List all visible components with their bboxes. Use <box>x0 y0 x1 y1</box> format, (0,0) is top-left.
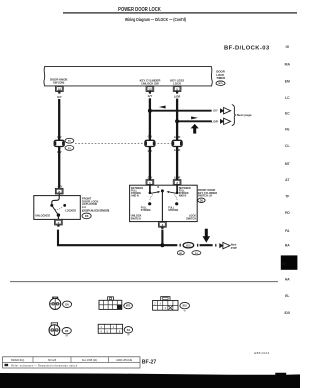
svg-text:AND N: AND N <box>131 195 139 198</box>
svg-text:UNLOCKED: UNLOCKED <box>35 213 50 217</box>
wire L/OR right vertical lower <box>176 147 178 180</box>
svg-text:UNLOCK SW: UNLOCK SW <box>141 82 159 86</box>
connector code oval D1 below bus <box>192 251 201 255</box>
door lock timer unit box (torn wavy edges) <box>44 67 212 86</box>
svg-text:EL: EL <box>285 294 289 298</box>
wire G/Y horizontal to next page <box>150 110 212 112</box>
bottom scan black band <box>0 373 300 388</box>
svg-text:PD: PD <box>285 211 290 215</box>
svg-text:IDX: IDX <box>284 311 290 315</box>
junction on L/OR wire <box>175 119 179 123</box>
svg-text:L/OR: L/OR <box>174 175 180 179</box>
bus junction dot <box>160 243 164 247</box>
svg-text:STROKE: STROKE <box>168 209 178 212</box>
connector face D5 round <box>49 323 60 336</box>
bus right segment <box>200 244 213 246</box>
svg-text:FA: FA <box>285 229 290 233</box>
svg-text:G996-UP10UE: G996-UP10UE <box>116 359 132 362</box>
svg-text:W: W <box>184 311 187 313</box>
svg-text:D6: D6 <box>65 302 69 306</box>
svg-text:LOCKED: LOCKED <box>65 209 76 213</box>
right throw dashed arc <box>174 195 177 201</box>
arrow marker left on G/Y wire <box>159 106 166 109</box>
front door lock actuator LH box <box>34 196 81 220</box>
svg-text:MA: MA <box>285 63 291 67</box>
svg-text:CL: CL <box>285 144 290 148</box>
svg-text:L/OR: L/OR <box>174 94 180 98</box>
svg-text:BF: BF <box>282 262 287 266</box>
connector code oval D1 <box>65 146 74 151</box>
junction on G/Y wire <box>148 109 152 113</box>
svg-text:AND N: AND N <box>179 195 187 198</box>
svg-text:G/Y: G/Y <box>58 184 63 188</box>
left throw dashed arc <box>150 195 153 201</box>
front door key cylinder switch LH box <box>130 185 198 221</box>
svg-text:AT: AT <box>285 178 290 182</box>
wire G/Y left vertical lower <box>58 147 60 189</box>
connector code oval B1 face <box>124 327 132 333</box>
svg-text:LC: LC <box>285 96 290 100</box>
actuator throw dashed arc <box>53 207 63 210</box>
svg-text:MT: MT <box>285 162 291 166</box>
footer revision table <box>3 357 141 368</box>
svg-text:HA: HA <box>285 278 290 282</box>
actuator switch lever <box>52 205 59 215</box>
svg-text:POWER DOOR LOCK: POWER DOOR LOCK <box>118 6 161 13</box>
arrow marker right on L/OR wire <box>191 116 198 119</box>
connector code oval B1 below bus <box>177 251 184 255</box>
svg-text:G/Y: G/Y <box>148 94 153 98</box>
svg-text:N: N <box>157 186 159 189</box>
svg-text:G/Y: G/Y <box>148 135 153 139</box>
connector code M75 oval <box>216 81 225 85</box>
svg-text:SWITCH LH: SWITCH LH <box>198 194 213 198</box>
connector code oval B1 <box>65 138 74 143</box>
page arrow symbol bottom <box>219 242 230 248</box>
connector code oval D5 face <box>62 328 71 334</box>
actuator internal wire down <box>57 215 59 219</box>
svg-text:SWITCH: SWITCH <box>186 217 196 220</box>
pin 13 of timer <box>146 86 154 94</box>
svg-text:GBF1044: GBF1044 <box>254 351 269 355</box>
wire G/Y middle vertical upper <box>149 98 151 140</box>
svg-text:TF: TF <box>285 195 289 199</box>
svg-text:BF-D/LOCK-03: BF-D/LOCK-03 <box>224 45 270 51</box>
key switch left wire stub <box>149 185 151 192</box>
connector code oval D6 face <box>63 301 72 307</box>
left lever with arrowhead <box>150 192 157 193</box>
svg-text:M75: M75 <box>126 306 131 308</box>
actuator pin 8 <box>55 188 63 194</box>
page arrow symbol second <box>220 118 231 124</box>
wire L/OR horizontal to next page <box>177 120 212 122</box>
down arrow page marker <box>203 229 211 243</box>
svg-text:STROKE: STROKE <box>141 209 151 212</box>
curly brace to next page <box>232 105 236 126</box>
actuator pin 7 <box>55 219 63 226</box>
inline connector on G/Y middle wire <box>145 140 155 146</box>
connector face B1 rectangular <box>98 324 122 333</box>
svg-text:13: 13 <box>148 87 152 91</box>
svg-text:L/OR: L/OR <box>211 120 217 124</box>
pin 18 of timer <box>56 86 64 94</box>
bus end tick <box>215 244 216 247</box>
svg-text:SWITCH: SWITCH <box>131 217 141 220</box>
svg-text:B15: B15 <box>183 306 188 308</box>
svg-text:: Refer indicators — Reworded: : Refer indicators — Reworded informatio… <box>9 364 78 367</box>
svg-text:BMA06-91Q: BMA06-91Q <box>11 359 24 362</box>
svg-text:G/Y: G/Y <box>57 95 62 99</box>
svg-text:LOCK: LOCK <box>173 82 181 86</box>
key cylinder switch pin 3 <box>173 180 181 186</box>
key cylinder switch pin 4 <box>159 222 167 229</box>
wire G/Y middle vertical lower <box>149 147 151 180</box>
wire L/OR right vertical upper <box>176 99 178 141</box>
svg-text:D6: D6 <box>85 214 89 218</box>
header rule <box>63 12 297 13</box>
section tab BF highlighted box <box>281 255 298 269</box>
connector code D5 oval <box>198 198 205 202</box>
actuator locked contact <box>63 204 66 207</box>
inline connector on G/Y left wire <box>54 140 64 146</box>
svg-text:TIMER: TIMER <box>216 76 226 80</box>
svg-text:G/Y: G/Y <box>57 135 62 139</box>
harness dashed link line <box>75 142 171 144</box>
pin 5 of timer <box>173 86 181 94</box>
inline connector nub right <box>197 244 198 247</box>
key switch center wire <box>161 191 163 222</box>
key cylinder switch pin 1 <box>146 180 154 186</box>
svg-text:RA: RA <box>285 244 290 248</box>
key switch right wire stub <box>176 185 178 192</box>
page arrow symbol top <box>220 108 231 114</box>
up arrow page marker <box>191 124 199 134</box>
svg-text:S6 G28: S6 G28 <box>48 359 57 362</box>
svg-text:L/OR: L/OR <box>174 135 180 139</box>
connector code oval B15 face <box>180 302 190 308</box>
wire G/Y left vertical upper <box>58 99 60 140</box>
connector code oval M75 face <box>124 303 133 309</box>
inline connector B15 on bus <box>183 243 194 248</box>
svg-text:B15: B15 <box>186 245 191 247</box>
right lever with arrowhead <box>170 192 177 193</box>
svg-text:Dec 1995 (04): Dec 1995 (04) <box>82 359 97 362</box>
connector face D6 round <box>50 297 61 310</box>
separator line <box>10 281 278 283</box>
svg-text:G/Y: G/Y <box>213 109 218 113</box>
connector code D6 oval <box>82 213 91 219</box>
svg-text:(DOOR UNLOCK SENSOR): (DOOR UNLOCK SENSOR) <box>82 208 109 212</box>
svg-text:BF-27: BF-27 <box>142 359 157 365</box>
svg-text:EC: EC <box>285 112 290 116</box>
svg-text:Wiring Diagram — D/LOCK — (Con: Wiring Diagram — D/LOCK — (Cont'd) <box>125 16 187 22</box>
inline connector nub left <box>180 244 181 247</box>
wire from actuator down and right (bus) <box>58 230 177 246</box>
svg-text:18: 18 <box>58 87 62 91</box>
N center contact <box>161 189 164 192</box>
actuator lower contact <box>57 213 60 216</box>
svg-text:Next page: Next page <box>237 113 252 117</box>
connector face M75 rectangular <box>99 297 122 310</box>
svg-text:SW (ON): SW (ON) <box>53 81 64 85</box>
actuator internal wire bend <box>52 194 59 205</box>
full stroke contact right <box>175 202 178 205</box>
full stroke contact left <box>148 202 151 205</box>
svg-text:GY: GY <box>65 336 69 338</box>
svg-text:W: W <box>127 335 130 337</box>
svg-text:G/Y: G/Y <box>148 175 153 179</box>
wire from key switch pin 4 to bus <box>161 230 163 246</box>
svg-text:FE: FE <box>285 128 290 132</box>
inline connector on L/OR right wire <box>172 140 182 146</box>
actuator upper contact <box>50 204 53 207</box>
connector face B15 rectangular <box>153 297 178 311</box>
svg-text:GI: GI <box>286 45 290 49</box>
svg-text:EM: EM <box>285 80 290 84</box>
svg-text:page: page <box>231 247 238 250</box>
